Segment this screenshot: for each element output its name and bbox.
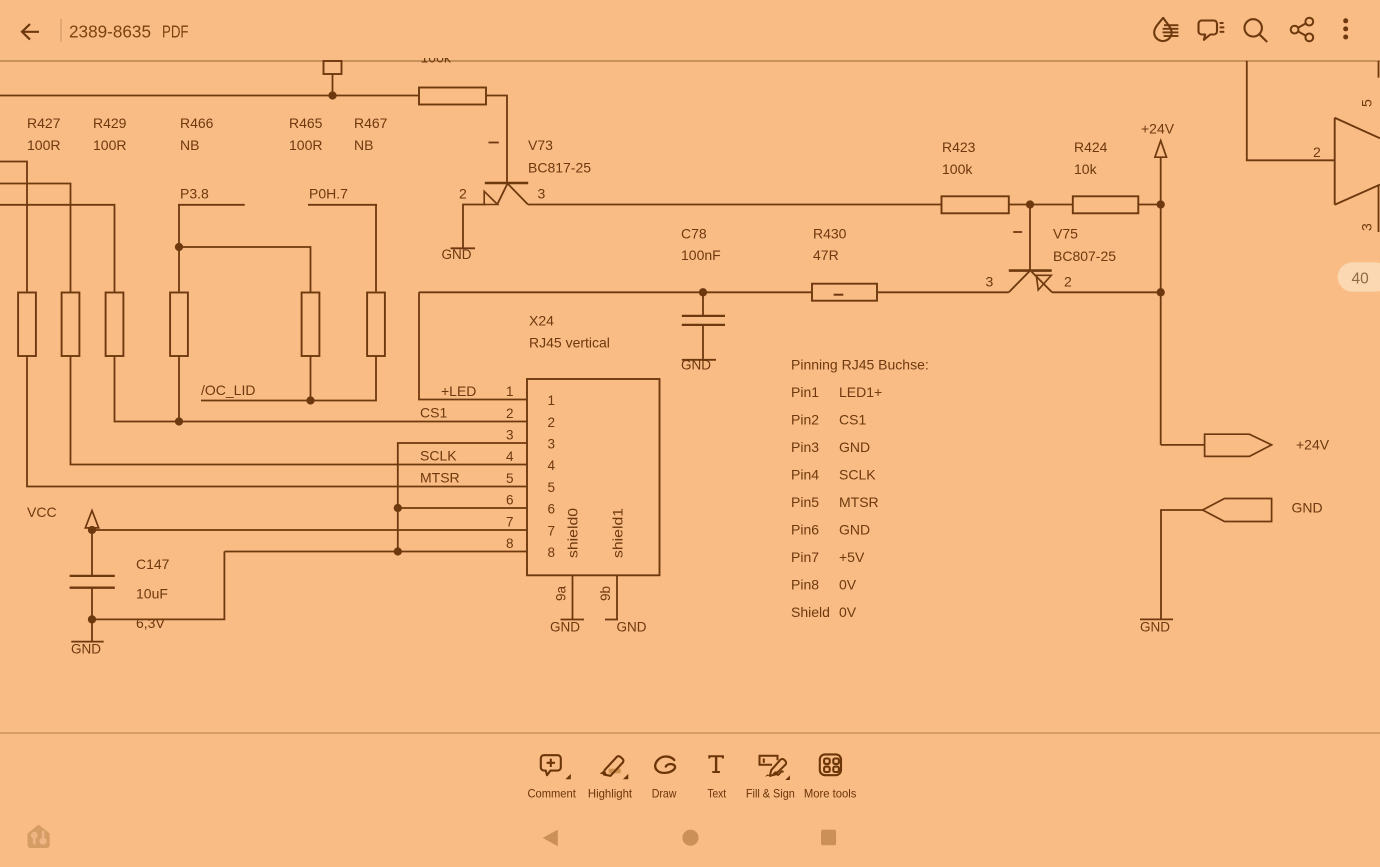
svg-text:3: 3 (1359, 223, 1375, 231)
svg-text:Pin2: Pin2 (791, 412, 819, 428)
wire: /OC_LID underline to R465 bottom (201, 400, 311, 402)
nav home circle (682, 830, 698, 846)
svg-text:SCLK: SCLK (839, 467, 876, 483)
svg-text:Shield: Shield (791, 604, 830, 620)
wire: stub from clipped resistor to bus y=95.5 (332, 74, 334, 96)
pin numbers outside (506, 384, 514, 551)
svg-text:6,3V: 6,3V (136, 615, 165, 631)
wire: P0H.7 drop to R467 top (375, 205, 377, 293)
wire: pin3 gnd riser (398, 443, 527, 552)
svg-text:R466: R466 (180, 115, 214, 131)
node: junction rail/emitter (1157, 288, 1165, 296)
pin 3 stub (1378, 185, 1380, 232)
svg-text:SCLK: SCLK (420, 448, 457, 464)
fill & sign tool icon (760, 756, 790, 780)
wire to top plate (702, 292, 704, 316)
collector diagonal (1009, 271, 1030, 292)
capacitor C147 (70, 530, 115, 619)
transistor V75 (1009, 205, 1052, 293)
share icon (1291, 18, 1314, 42)
svg-text:100nF: 100nF (681, 247, 721, 263)
triangle body (1335, 118, 1380, 205)
note Pinning RJ45 Buchse (791, 357, 929, 621)
resistor R429 body (62, 293, 80, 357)
svg-text:100R: 100R (27, 137, 60, 153)
svg-text:4: 4 (506, 449, 514, 464)
nav back triangle (543, 830, 558, 847)
svg-text:R424: R424 (1074, 139, 1108, 155)
wire: VCC to pin7 (92, 529, 527, 531)
transistor V73 (484, 143, 528, 205)
svg-text:+24V: +24V (1296, 437, 1330, 453)
wire: pin8 row (224, 551, 527, 553)
svg-text:GND: GND (839, 439, 870, 455)
node: junction R465 bottom (306, 396, 314, 404)
svg-text:GND: GND (1292, 500, 1323, 516)
X24 box (527, 379, 660, 575)
ground C78 (681, 358, 716, 373)
resistor (clipped, top center) (324, 61, 342, 74)
node: junction VCC (88, 526, 96, 534)
svg-text:Draw: Draw (652, 787, 677, 801)
svg-text:CS1: CS1 (839, 412, 866, 428)
svg-text:6: 6 (548, 502, 556, 517)
svg-text:VCC: VCC (27, 504, 57, 520)
svg-text:1: 1 (506, 384, 514, 399)
svg-text:2: 2 (1313, 144, 1321, 160)
svg-text:8: 8 (548, 545, 556, 560)
svg-text:+LED: +LED (441, 383, 476, 399)
svg-text:2389-8635: 2389-8635 (69, 22, 151, 42)
base wire (1029, 205, 1031, 271)
text tool icon (709, 756, 723, 772)
wire: R465 bottom stub (310, 356, 312, 401)
wire from bottom plate (702, 325, 704, 360)
svg-text:3: 3 (506, 428, 514, 443)
wire: R428 bottom to CS1 row (115, 356, 528, 422)
wire: V73 emitter to GND (463, 205, 486, 248)
wire: horizontal bus into R at V73 base (0, 95, 419, 97)
wire: branch to R465 top (179, 247, 311, 293)
more tools icon (820, 754, 841, 775)
wire: R427 bottom to MTSR row (27, 356, 527, 487)
wire: P3.8 drop to R466 (178, 205, 180, 293)
flag GND (1203, 499, 1272, 522)
svg-text:Pin5: Pin5 (791, 494, 819, 510)
svg-text:C78: C78 (681, 226, 707, 242)
highlight tool icon (600, 756, 629, 779)
emitter diagonal (497, 184, 507, 205)
svg-text:100R: 100R (93, 137, 126, 153)
resistor R424 body (1073, 196, 1139, 213)
wire: V73 collector to R423 (528, 204, 942, 206)
pin 1 dash label (489, 142, 499, 144)
svg-text:More tools: More tools (804, 787, 857, 801)
wire: V75 emitter to rail (1052, 291, 1161, 293)
wire: to R467 bottom (311, 356, 377, 401)
node: junction C78 (699, 288, 707, 296)
wire: R430 to V75 collector (877, 291, 1009, 293)
svg-text:3: 3 (986, 274, 994, 290)
ground shield0 (550, 620, 584, 635)
svg-text:2: 2 (548, 415, 556, 430)
svg-text:P3.8: P3.8 (180, 186, 209, 202)
wire: LED node bus C78/R430 (419, 291, 812, 293)
comment icon (1199, 21, 1225, 40)
svg-text:100R: 100R (289, 137, 322, 153)
pin numbers inside (548, 393, 556, 560)
svg-text:P0H.7: P0H.7 (309, 186, 348, 202)
svg-text:MTSR: MTSR (839, 494, 879, 510)
svg-text:47R: 47R (813, 247, 839, 263)
svg-text:R423: R423 (942, 139, 976, 155)
resistor R466 body (170, 293, 188, 357)
svg-text:R429: R429 (93, 115, 127, 131)
liquid-mode icon (1154, 18, 1178, 41)
wire: R423 to node (1009, 204, 1030, 206)
wire to top plate (91, 530, 93, 576)
base bar (1009, 269, 1052, 272)
pin 1 dash label (1013, 231, 1022, 233)
wire: shield1 stub (616, 575, 618, 619)
wire: +LED pin1 (419, 292, 527, 399)
wire: P0H.7 underline (308, 204, 377, 206)
base bar (485, 182, 528, 185)
wire: stair to R429 top (0, 184, 71, 293)
back arrow (22, 24, 39, 40)
overflow menu dots (1343, 18, 1348, 39)
buffer U? right edge (1247, 61, 1380, 232)
ground V73 (442, 247, 476, 262)
resistor (base resistor of V73) (419, 88, 486, 105)
svg-text:BC817-25: BC817-25 (528, 160, 591, 176)
svg-text:10uF: 10uF (136, 586, 168, 602)
pin 5 stub (1378, 61, 1380, 78)
svg-text:R467: R467 (354, 115, 388, 131)
bottom plate (682, 324, 725, 326)
wire: stair to R428 top (0, 205, 115, 293)
ground right (1140, 619, 1173, 634)
svg-text:Fill & Sign: Fill & Sign (746, 787, 795, 801)
svg-text:PDF: PDF (162, 22, 189, 42)
svg-text:100k: 100k (942, 161, 973, 177)
wire from bottom plate (91, 588, 93, 620)
svg-text:1: 1 (548, 393, 556, 408)
svg-text:5: 5 (506, 471, 514, 486)
svg-text:3: 3 (548, 437, 556, 452)
wire: C147 bottom to pin8 row (92, 552, 224, 620)
svg-text:Text: Text (707, 787, 726, 801)
svg-text:R465: R465 (289, 115, 323, 131)
title divider (60, 19, 62, 42)
wire: GND flag to ground (1161, 510, 1203, 619)
svg-text:NB: NB (180, 137, 199, 153)
top plate (70, 575, 115, 577)
top right icons (1154, 18, 1348, 42)
svg-text:RJ45 vertical: RJ45 vertical (529, 335, 610, 351)
wire: stair to R427 top (0, 162, 27, 293)
svg-text:Comment: Comment (528, 787, 577, 801)
svg-text:7: 7 (548, 524, 556, 539)
resistor R428 body (106, 293, 124, 357)
power +24V arrow (1141, 121, 1175, 158)
emitter arrow (1036, 275, 1051, 290)
page number pill 40 (1338, 262, 1380, 292)
svg-text:5: 5 (548, 480, 556, 495)
svg-text:GND: GND (1140, 620, 1170, 635)
resistor R465 body (302, 293, 320, 357)
draw tool icon (655, 757, 675, 773)
wire: shield0 stub (572, 575, 574, 619)
svg-text:40: 40 (1352, 271, 1370, 288)
resistor R423 body (942, 196, 1009, 213)
svg-text:/OC_LID: /OC_LID (201, 382, 255, 398)
VCC arrow (85, 511, 98, 528)
svg-text:GND: GND (550, 620, 580, 635)
wire: R429 bottom to SCLK row (71, 356, 528, 465)
svg-text:shield0: shield0 (566, 508, 581, 558)
search icon (1245, 19, 1268, 42)
ground C147 (71, 642, 104, 657)
svg-text:LED1+: LED1+ (839, 384, 882, 400)
svg-text:Pinning RJ45 Buchse:: Pinning RJ45 Buchse: (791, 357, 929, 373)
node: junction on y=95.5 bus (328, 91, 336, 99)
svg-text:Pin6: Pin6 (791, 522, 819, 538)
collector diagonal (508, 184, 529, 205)
wire: R466 bottom stub (178, 356, 180, 422)
svg-text:6: 6 (506, 493, 514, 508)
ground shield1 (605, 620, 647, 635)
svg-text:2: 2 (1064, 274, 1072, 290)
svg-text:2: 2 (459, 186, 467, 202)
svg-text:Pin7: Pin7 (791, 549, 819, 565)
wire: node to R424 (1030, 204, 1073, 206)
node: junction pin6 (394, 504, 402, 512)
svg-text:+5V: +5V (839, 549, 865, 565)
svg-text:shield1: shield1 (611, 508, 626, 558)
top plate (682, 315, 725, 317)
wire: P3.8 underline (178, 204, 245, 206)
wire: +24V rail (1160, 157, 1162, 445)
nav recents square (821, 830, 836, 846)
svg-text:Pin3: Pin3 (791, 439, 819, 455)
emitter arrow (484, 191, 497, 204)
wire: resistor to V73 base (486, 96, 507, 184)
svg-text:9a: 9a (554, 585, 569, 601)
svg-text:R430: R430 (813, 226, 847, 242)
svg-text:GND: GND (681, 358, 711, 373)
R430 inner dash (834, 294, 844, 296)
svg-text:C147: C147 (136, 556, 170, 572)
svg-text:5: 5 (1359, 99, 1375, 107)
svg-text:9b: 9b (598, 586, 613, 601)
wire: R424 to +24V rail (1138, 204, 1160, 206)
svg-text:4: 4 (548, 458, 556, 473)
svg-text:BC807-25: BC807-25 (1053, 248, 1116, 264)
comment tool icon (541, 755, 571, 779)
svg-text:GND: GND (839, 522, 870, 538)
svg-text:NB: NB (354, 137, 373, 153)
wire: C147 to ground (91, 619, 93, 641)
svg-text:Pin1: Pin1 (791, 384, 819, 400)
wire: pin6 row (398, 507, 527, 509)
svg-text:GND: GND (617, 620, 647, 635)
launcher home icon (28, 825, 50, 849)
emitter diagonal (1032, 272, 1052, 293)
node: junction R466/CS1 (175, 417, 183, 425)
resistor R430 body (812, 284, 877, 301)
svg-text:0V: 0V (839, 577, 857, 593)
svg-text:2: 2 (506, 406, 514, 421)
capacitor C78 (682, 292, 725, 360)
svg-text:X24: X24 (529, 313, 554, 329)
svg-text:10k: 10k (1074, 161, 1098, 177)
svg-text:100k: 100k (421, 49, 452, 65)
svg-text:V75: V75 (1053, 226, 1078, 242)
svg-text:+24V: +24V (1141, 121, 1175, 137)
svg-text:MTSR: MTSR (420, 470, 460, 486)
node: junction C147 bottom (88, 615, 96, 623)
svg-text:R427: R427 (27, 115, 61, 131)
svg-text:Highlight: Highlight (588, 787, 633, 801)
svg-text:V73: V73 (528, 137, 553, 153)
svg-text:Pin4: Pin4 (791, 467, 819, 483)
node: junction V75 base (1026, 200, 1034, 208)
flag +24V (1205, 434, 1272, 456)
node: junction pin8 (394, 547, 402, 555)
svg-text:GND: GND (71, 642, 101, 657)
wire: top bus drop (1247, 61, 1335, 161)
connector X24 (527, 313, 660, 576)
svg-text:GND: GND (442, 247, 472, 262)
svg-text:7: 7 (506, 515, 514, 530)
node: junction rail/R424 (1157, 200, 1165, 208)
wire: rail to +24V flag (1161, 444, 1205, 446)
resistor R467 body (367, 293, 385, 357)
wire: top horizontal bus (hairline) (0, 60, 1380, 62)
node: junction P3.8/R465 branch (175, 243, 183, 251)
svg-text:CS1: CS1 (420, 405, 447, 421)
svg-text:3: 3 (538, 186, 546, 202)
svg-text:0V: 0V (839, 604, 857, 620)
resistor R427 body (18, 293, 36, 357)
bottom plate (70, 587, 115, 589)
svg-text:8: 8 (506, 536, 514, 551)
svg-text:Pin8: Pin8 (791, 577, 819, 593)
power VCC (27, 504, 99, 528)
